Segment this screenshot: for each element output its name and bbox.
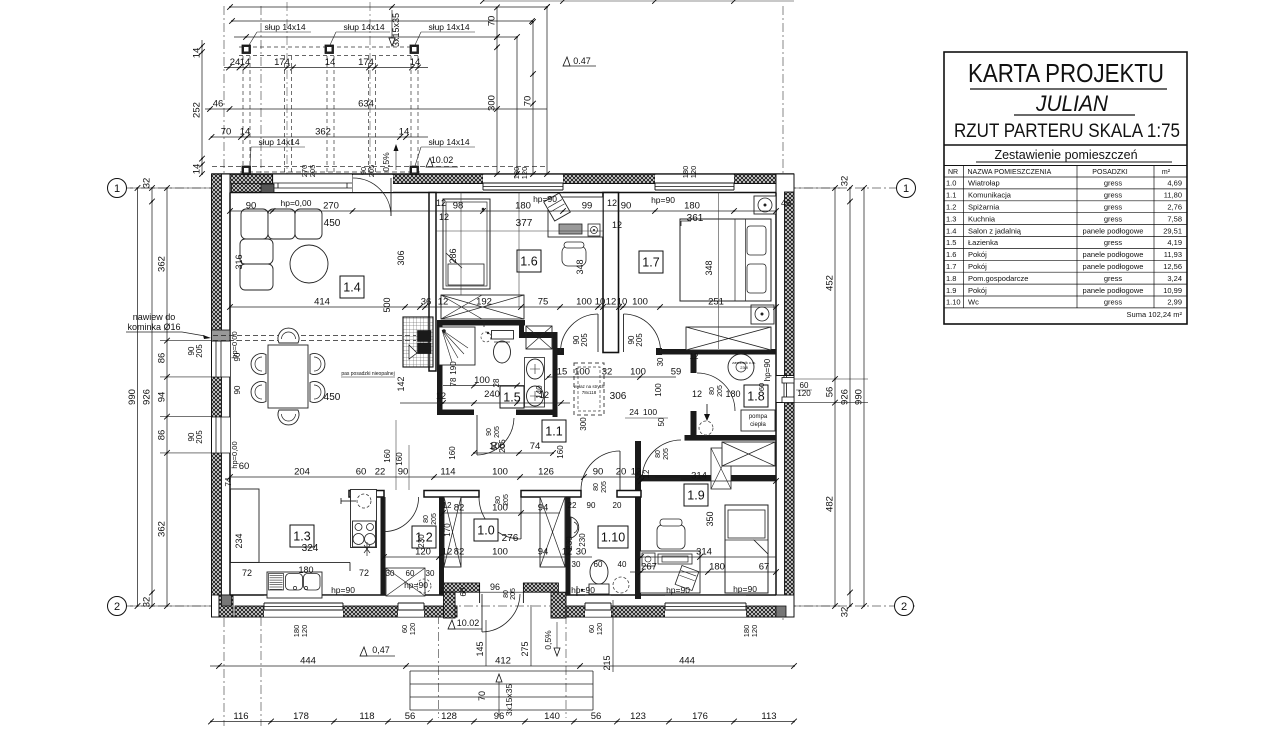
svg-text:362: 362: [157, 256, 168, 272]
svg-text:116: 116: [233, 711, 248, 722]
exterior wall bottom hatch segment: [424, 606, 457, 617]
svg-text:74: 74: [224, 477, 233, 486]
svg-text:3,24: 3,24: [1167, 274, 1182, 283]
bin room 1.9: [675, 566, 699, 591]
kitchen sink drainer: [269, 574, 284, 591]
svg-text:pompa: pompa: [749, 414, 768, 420]
svg-text:316: 316: [234, 254, 244, 269]
svg-text:100: 100: [576, 297, 592, 308]
svg-text:215: 215: [602, 655, 612, 670]
svg-text:11,93: 11,93: [1164, 250, 1182, 259]
svg-text:2,76: 2,76: [1167, 203, 1182, 212]
svg-text:hp=90: hp=90: [571, 585, 595, 595]
hall top wall cap right: [656, 348, 662, 355]
sink 1.10: [571, 517, 579, 538]
svg-text:348: 348: [704, 260, 714, 275]
door D8 hall-1.7 arc: [624, 314, 661, 352]
wardrobe 1.6 crossed: [441, 295, 524, 319]
svg-text:300: 300: [579, 417, 588, 431]
dim bottom y666: [210, 665, 794, 667]
exterior wall left band: [212, 174, 231, 617]
corridor right wall: [635, 441, 641, 599]
exterior wall left hatch segment: [212, 453, 222, 595]
svg-text:kominka Ø16: kominka Ø16: [127, 322, 180, 332]
svg-text:314: 314: [691, 471, 707, 482]
svg-text:12: 12: [606, 297, 617, 308]
svg-text:56: 56: [591, 711, 602, 722]
svg-text:1.2: 1.2: [946, 203, 956, 212]
svg-text:14: 14: [192, 48, 203, 59]
svg-text:240: 240: [484, 389, 500, 400]
dim left x152: [151, 188, 153, 606]
vanity 1.5: [525, 358, 545, 408]
sofa corner salon: [241, 209, 268, 239]
svg-text:24: 24: [230, 57, 241, 68]
armchair arc salon: [362, 654, 364, 656]
svg-text:90: 90: [233, 352, 242, 361]
svg-text:hp=90: hp=90: [651, 195, 675, 205]
svg-text:60: 60: [594, 560, 603, 569]
top wall lintel band: [232, 183, 777, 185]
svg-text:12: 12: [436, 391, 446, 401]
wall 1.0|1.10: [566, 497, 571, 595]
svg-text:1.10: 1.10: [601, 531, 625, 545]
dim top-right vertical x547: [546, 7, 548, 174]
dim top y7: [230, 6, 547, 8]
svg-text:205: 205: [503, 494, 510, 506]
pergola column slup 14x14: [410, 166, 419, 175]
svg-text:panele podłogowe: panele podłogowe: [1083, 250, 1144, 259]
svg-text:361: 361: [687, 213, 704, 224]
svg-text:180: 180: [684, 201, 700, 212]
svg-text:hp=90: hp=90: [331, 585, 355, 595]
wardrobe 1.0 left crossed: [444, 497, 461, 567]
svg-text:75: 75: [538, 297, 549, 308]
window C room 1.7 180: [655, 175, 734, 192]
svg-text:444: 444: [300, 656, 316, 667]
svg-text:hp=90: hp=90: [533, 194, 557, 204]
svg-text:78x118: 78x118: [582, 390, 597, 395]
left wall inner face: [229, 193, 231, 596]
svg-text:POSADZKI: POSADZKI: [1092, 169, 1127, 176]
svg-text:30: 30: [656, 357, 665, 366]
exterior wall top hatch segment: [393, 174, 483, 184]
svg-text:Pom.gospodarcze: Pom.gospodarcze: [968, 274, 1028, 283]
bottom-right corner dark: [776, 606, 786, 617]
svg-text:24: 24: [629, 407, 639, 417]
svg-text:634: 634: [358, 99, 374, 110]
svg-text:306: 306: [396, 250, 406, 265]
svg-text:14: 14: [399, 127, 410, 138]
svg-text:286: 286: [448, 248, 458, 263]
svg-text:1.3: 1.3: [293, 530, 310, 544]
kitchen counter left: [231, 489, 260, 562]
door D3 pantry arc: [384, 497, 419, 532]
svg-text:160: 160: [383, 449, 392, 463]
svg-text:wyłaz na strych: wyłaz na strych: [574, 384, 605, 389]
svg-text:12: 12: [436, 198, 446, 208]
svg-text:panele podłogowe: panele podłogowe: [1083, 226, 1144, 235]
door D4 vestibule arc: [479, 497, 521, 539]
svg-text:słup 14x14: słup 14x14: [264, 22, 305, 32]
svg-text:252: 252: [192, 102, 203, 118]
dining chair top: [278, 328, 299, 343]
bed room 1.6: [443, 199, 490, 289]
svg-text:1.6: 1.6: [520, 255, 537, 269]
wall below 1.7: [656, 349, 776, 355]
svg-text:100: 100: [474, 375, 490, 386]
bottom window kitchen 180: [264, 596, 343, 617]
room 1.8 left wall lower: [691, 411, 697, 435]
svg-text:ciepła: ciepła: [750, 422, 766, 428]
svg-text:1: 1: [114, 183, 120, 195]
svg-text:94: 94: [157, 392, 168, 403]
svg-text:90: 90: [398, 467, 409, 478]
room 1.9 top wall: [641, 475, 681, 481]
svg-text:hp=0,00: hp=0,00: [281, 198, 312, 208]
dim hall y377: [548, 376, 676, 378]
svg-text:1.1: 1.1: [946, 191, 956, 200]
svg-text:205: 205: [717, 385, 724, 397]
svg-text:70: 70: [487, 16, 498, 27]
svg-text:50: 50: [657, 417, 666, 426]
wall kitchen|1.2: [381, 497, 386, 595]
level marker 0.47 bottom: [360, 647, 367, 656]
svg-text:362: 362: [157, 521, 168, 537]
svg-text:275: 275: [520, 641, 530, 656]
svg-text:450: 450: [324, 392, 341, 403]
svg-text:205: 205: [498, 439, 507, 453]
room label 1.9: [684, 484, 708, 506]
nawiew duct dashed lines: [213, 335, 416, 337]
laptop room 1.6: [544, 193, 571, 221]
svg-text:120: 120: [750, 625, 759, 638]
svg-text:Komunikacja: Komunikacja: [968, 191, 1012, 200]
svg-text:4,69: 4,69: [1167, 179, 1182, 188]
svg-text:90: 90: [593, 467, 604, 478]
axis marker circle 1: [897, 179, 916, 198]
svg-text:słup 14x14: słup 14x14: [428, 137, 469, 147]
door D5 hall-band arc: [581, 451, 620, 490]
svg-text:KARTA PROJEKTU: KARTA PROJEKTU: [968, 58, 1164, 88]
chimney block: [403, 317, 433, 367]
svg-text:86: 86: [157, 430, 168, 441]
svg-text:90: 90: [233, 385, 242, 394]
svg-text:78: 78: [449, 377, 458, 386]
dim 1.9 y481: [641, 480, 776, 482]
svg-text:1.4: 1.4: [343, 281, 360, 295]
exterior wall bottom hatch segment: [611, 606, 665, 617]
dim bottom stub 275: [530, 605, 532, 666]
svg-text:500: 500: [382, 297, 392, 312]
kitchen stove column: [351, 490, 377, 548]
dining chair bottom: [278, 410, 299, 425]
svg-text:Zestawienie pomieszczeń: Zestawienie pomieszczeń: [994, 148, 1137, 162]
svg-text:192: 192: [476, 297, 492, 308]
room label 1.8: [744, 385, 768, 407]
door D7 hall-1.6 arc: [561, 314, 599, 352]
svg-text:panele podłogowe: panele podłogowe: [1083, 262, 1144, 271]
top axis core block: [261, 184, 274, 193]
svg-text:1.8: 1.8: [946, 274, 956, 283]
svg-text:205: 205: [431, 513, 438, 525]
svg-text:270: 270: [323, 201, 339, 212]
svg-text:46: 46: [213, 99, 224, 110]
svg-text:300: 300: [487, 95, 498, 111]
bottom window pantry 60: [398, 596, 424, 617]
svg-text:gress: gress: [1104, 203, 1123, 212]
svg-text:12: 12: [692, 389, 702, 399]
kitchen stove burners: [353, 521, 376, 547]
room 1.8 bottom wall: [685, 435, 777, 441]
svg-text:82: 82: [454, 547, 465, 558]
bathroom right wall: [553, 332, 558, 417]
svg-text:Pokój: Pokój: [968, 262, 987, 271]
svg-text:1.6: 1.6: [946, 250, 956, 259]
room label 1.5: [500, 386, 524, 408]
svg-text:32: 32: [142, 178, 153, 189]
room label 1.10: [598, 526, 628, 548]
svg-text:gress: gress: [1104, 191, 1123, 200]
svg-text:46: 46: [781, 198, 791, 208]
wardrobe 1.9 crossed: [722, 442, 775, 466]
svg-text:123: 123: [630, 711, 646, 722]
dim top-right vertical x533: [532, 22, 534, 174]
svg-text:482: 482: [825, 496, 836, 512]
svg-text:Wc: Wc: [968, 298, 979, 307]
svg-text:205: 205: [195, 344, 204, 358]
entrance door opening: [480, 584, 523, 602]
washer dashed 1.10: [613, 577, 629, 593]
room label 1.6: [517, 250, 541, 272]
exterior wall top hatch segment: [563, 174, 655, 184]
dim top y72: [224, 67, 428, 69]
bottom-left corner block: [219, 595, 233, 617]
dim 1.9 y557: [641, 556, 776, 558]
svg-text:180: 180: [515, 201, 531, 212]
room label 1.4: [340, 276, 364, 298]
wardrobe 1.7 crossed: [686, 327, 771, 350]
svg-text:pas posadzki nieopalnej: pas posadzki nieopalnej: [341, 371, 394, 377]
svg-text:86: 86: [157, 353, 168, 364]
dining chair right 2: [310, 382, 325, 403]
svg-text:160: 160: [448, 446, 457, 460]
svg-text:60: 60: [757, 383, 766, 391]
svg-text:14: 14: [240, 127, 251, 138]
svg-text:82: 82: [454, 503, 465, 514]
svg-text:80: 80: [655, 450, 662, 458]
pergola column slup 14x14: [242, 45, 251, 54]
svg-text:gress: gress: [1104, 274, 1123, 283]
exterior wall bottom hatch segment: [746, 606, 776, 617]
axis vertical kitchen x261 top: [260, 6, 262, 174]
axis vertical pergola x370: [369, 2, 371, 175]
svg-text:377: 377: [516, 218, 533, 229]
door D10 room 1.9 arc: [642, 440, 681, 479]
wardrobe 1.0 right crossed: [540, 497, 565, 567]
wardrobe 1.2 crossed: [386, 568, 425, 596]
svg-text:178: 178: [293, 711, 309, 722]
svg-text:12: 12: [442, 547, 453, 558]
dim right x864: [863, 188, 865, 606]
svg-text:414: 414: [314, 297, 330, 308]
bathroom niche back wall: [523, 332, 553, 338]
svg-text:67: 67: [759, 562, 770, 573]
dining chair right 1: [310, 354, 325, 375]
svg-text:1.7: 1.7: [642, 256, 659, 270]
dim extension x519: [518, 193, 520, 308]
axis vertical pergola x287: [286, 2, 288, 175]
svg-text:100: 100: [492, 547, 508, 558]
svg-text:348: 348: [575, 259, 585, 274]
svg-text:1.1: 1.1: [545, 425, 562, 439]
entrance door D11 arc: [482, 594, 520, 632]
svg-text:0,5%: 0,5%: [381, 152, 391, 172]
axis vertical right wall: [782, 6, 784, 620]
nightstand 1.7 top: [754, 196, 776, 214]
svg-text:114: 114: [440, 467, 455, 478]
top cropped dim ticks: [483, 0, 794, 2]
svg-text:1.5: 1.5: [946, 238, 956, 247]
bottom window wc 60: [585, 596, 611, 617]
svg-text:1.9: 1.9: [946, 286, 956, 295]
svg-text:hp=90: hp=90: [763, 358, 772, 381]
room label 1.3: [290, 525, 314, 547]
svg-text:90: 90: [621, 201, 632, 212]
dining chair left 2: [251, 382, 266, 403]
svg-text:panele podłogowe: panele podłogowe: [1083, 286, 1144, 295]
top wall outer face line: [212, 173, 795, 175]
svg-text:60: 60: [406, 569, 415, 578]
svg-text:Spiżarnia: Spiżarnia: [968, 203, 1000, 212]
svg-text:22: 22: [568, 501, 577, 510]
bottom band top wall segment: [349, 491, 384, 498]
svg-text:3x15x35: 3x15x35: [504, 684, 514, 716]
dim left x137.5: [137, 188, 139, 606]
svg-text:14: 14: [192, 164, 203, 175]
room 1.9 top wall right part: [681, 475, 776, 481]
svg-text:22: 22: [375, 467, 386, 478]
pergola beam dashed: [410, 56, 412, 174]
svg-text:80: 80: [423, 515, 430, 523]
svg-text:56: 56: [825, 387, 836, 398]
svg-text:20: 20: [613, 501, 622, 510]
chair room 1.9: [657, 525, 685, 549]
kitchen sink base: [267, 572, 322, 598]
svg-text:412: 412: [495, 656, 511, 667]
bed room 1.7: [680, 219, 771, 301]
svg-text:7,58: 7,58: [1167, 214, 1182, 223]
svg-text:2,99: 2,99: [1167, 298, 1182, 307]
chair room 1.6: [562, 246, 586, 266]
svg-text:80: 80: [495, 496, 502, 504]
bathroom bottom wall left: [437, 410, 474, 416]
pergola beam dashed: [326, 56, 328, 174]
svg-text:80: 80: [709, 387, 716, 395]
svg-text:12: 12: [642, 469, 651, 478]
exterior wall top hatch segment: [734, 174, 776, 184]
dim right x850: [849, 188, 851, 606]
svg-text:14: 14: [410, 57, 421, 68]
svg-text:hp=0,00: hp=0,00: [230, 441, 239, 468]
door D9 room 1.8 arc: [697, 373, 735, 411]
svg-text:12: 12: [631, 467, 642, 478]
dim bath y403: [400, 402, 570, 404]
dim top y137: [212, 136, 429, 138]
svg-text:14: 14: [325, 57, 336, 68]
svg-text:120: 120: [689, 166, 698, 179]
dim bottom stub 215: [612, 600, 614, 672]
room label 1.7: [639, 251, 663, 273]
svg-text:m²: m²: [1162, 169, 1171, 176]
svg-text:140: 140: [535, 385, 544, 399]
svg-text:94: 94: [538, 503, 549, 514]
svg-text:94: 94: [538, 547, 549, 558]
svg-text:70: 70: [221, 127, 232, 138]
svg-text:1.9: 1.9: [687, 489, 704, 503]
svg-text:15: 15: [557, 367, 568, 378]
svg-text:90: 90: [587, 501, 596, 510]
toilet 1.10: [590, 560, 608, 584]
svg-text:926: 926: [142, 389, 153, 405]
svg-text:12: 12: [439, 212, 449, 222]
svg-text:98: 98: [453, 201, 464, 212]
svg-text:RZUT PARTERU SKALA 1:75: RZUT PARTERU SKALA 1:75: [954, 121, 1180, 142]
kitchen sink future dashed: [357, 494, 371, 508]
window A salon 270: [273, 174, 353, 193]
svg-text:72: 72: [242, 568, 252, 578]
svg-text:NR: NR: [948, 169, 958, 176]
entrance steps: [410, 670, 593, 672]
svg-text:28: 28: [492, 378, 501, 387]
svg-text:30: 30: [572, 560, 581, 569]
dim band y557: [384, 556, 592, 558]
left wall window 2: [212, 417, 230, 453]
svg-text:99: 99: [582, 201, 593, 212]
axis marker circle 2: [108, 597, 127, 616]
bottom-left corner dark: [222, 595, 232, 606]
right extension lines: [794, 378, 868, 380]
svg-text:Kuchnia: Kuchnia: [968, 214, 996, 223]
radiator valve 1.8: [706, 404, 708, 418]
attic access hatch: [574, 363, 604, 415]
svg-text:Suma 102,24 m²: Suma 102,24 m²: [1127, 310, 1183, 319]
door D1 arc garden door: [353, 178, 391, 216]
axis line 1 horizontal: [107, 187, 916, 189]
svg-text:14: 14: [240, 57, 251, 68]
interior wall 1.4|1.6: [429, 193, 436, 372]
level marker 10.02 pergola: [426, 158, 433, 167]
exterior wall right band: [776, 174, 794, 617]
svg-text:4,19: 4,19: [1167, 238, 1182, 247]
top wall door opening: [353, 175, 394, 192]
svg-text:59: 59: [671, 367, 682, 378]
svg-text:205: 205: [580, 333, 589, 347]
svg-text:234: 234: [234, 533, 244, 548]
kitchen top wall cap: [244, 491, 260, 498]
svg-text:1.0: 1.0: [946, 179, 956, 188]
svg-text:126: 126: [538, 467, 554, 478]
svg-text:80: 80: [593, 483, 600, 491]
svg-text:230l: 230l: [740, 365, 748, 370]
door D6 bathroom arc: [477, 418, 514, 455]
svg-text:10,99: 10,99: [1163, 286, 1182, 295]
svg-text:2: 2: [114, 601, 120, 613]
svg-text:100: 100: [654, 383, 663, 397]
svg-text:90: 90: [486, 428, 493, 436]
svg-text:120: 120: [595, 623, 604, 636]
right wall inner face: [775, 193, 777, 596]
